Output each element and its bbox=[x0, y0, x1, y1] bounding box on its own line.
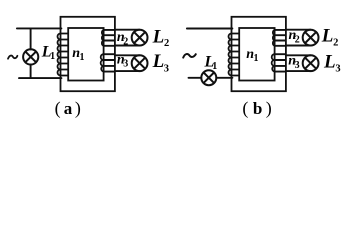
svg-text:3: 3 bbox=[335, 63, 340, 74]
svg-text:L: L bbox=[152, 51, 165, 72]
wire top (b) bbox=[187, 28, 233, 30]
svg-text:L: L bbox=[152, 27, 165, 48]
lamp L1 (a) bbox=[23, 49, 38, 64]
winding n2 ticks (b) bbox=[275, 30, 286, 46]
lamp L3 (a) bbox=[132, 55, 148, 71]
wire n3 to L3 bottom (b) bbox=[286, 70, 311, 72]
wire n2 to L2 top (a) bbox=[115, 29, 140, 31]
winding n3 ticks (b) bbox=[275, 54, 286, 71]
svg-text:1: 1 bbox=[254, 53, 259, 64]
wire lamp to core (b) bbox=[216, 77, 232, 79]
wire n3 to L3 top (a) bbox=[115, 54, 140, 56]
wire top (a) bbox=[17, 27, 62, 29]
core outer rect (a) bbox=[61, 17, 115, 91]
svg-text:3: 3 bbox=[123, 59, 128, 70]
wire n3 to L3 bottom (a) bbox=[115, 70, 140, 72]
wire lamp stub top (a) bbox=[30, 28, 32, 49]
lamp L2 (b) bbox=[303, 30, 319, 46]
core inner rect (a) bbox=[68, 28, 103, 81]
core outer rect (b) bbox=[232, 17, 286, 91]
wire bottom (a) bbox=[19, 77, 61, 79]
source ~ (a) bbox=[8, 56, 17, 59]
svg-text:2: 2 bbox=[123, 36, 128, 47]
winding n3 coil (b) bbox=[272, 54, 275, 71]
svg-text:2: 2 bbox=[295, 35, 300, 46]
winding n1 coil (b) bbox=[229, 34, 232, 76]
svg-text:1: 1 bbox=[50, 51, 55, 62]
winding n1 ticks (b) bbox=[232, 34, 240, 76]
winding n1 ticks (a) bbox=[61, 34, 69, 76]
svg-text:): ) bbox=[266, 98, 272, 119]
lamp L1 (b) bbox=[201, 70, 216, 85]
svg-text:L: L bbox=[323, 51, 336, 72]
core inner rect (b) bbox=[239, 28, 274, 81]
svg-text:1: 1 bbox=[80, 52, 85, 63]
svg-text:1: 1 bbox=[212, 61, 217, 72]
wire n2 to L2 bottom (b) bbox=[286, 45, 311, 47]
svg-text:3: 3 bbox=[164, 63, 169, 74]
svg-text:3: 3 bbox=[295, 60, 300, 71]
winding n1 coil (a) bbox=[58, 34, 61, 76]
transformer T (b) bbox=[229, 17, 286, 91]
winding n2 ticks (a) bbox=[104, 30, 115, 46]
svg-text:2: 2 bbox=[333, 37, 338, 48]
transformer T (a) bbox=[58, 17, 115, 91]
source ~ (b) bbox=[183, 54, 196, 58]
svg-text:(: ( bbox=[242, 98, 248, 119]
svg-text:): ) bbox=[75, 98, 81, 119]
svg-text:b: b bbox=[253, 99, 262, 118]
lamp L2 (a) bbox=[132, 30, 148, 46]
winding n3 coil (a) bbox=[101, 54, 104, 71]
wire n3 to L3 top (b) bbox=[286, 54, 311, 56]
wire lamp stub bottom (a) bbox=[30, 65, 32, 79]
wire n2 to L2 bottom (a) bbox=[115, 45, 140, 47]
wire bottom-left to lamp (b) bbox=[189, 77, 202, 79]
svg-text:a: a bbox=[64, 99, 73, 118]
lamp L3 (b) bbox=[303, 55, 319, 71]
svg-text:2: 2 bbox=[164, 38, 169, 49]
wire n2 to L2 top (b) bbox=[286, 29, 311, 31]
svg-text:(: ( bbox=[55, 98, 61, 119]
winding n2 coil (b) bbox=[273, 30, 275, 46]
svg-text:L: L bbox=[321, 25, 334, 46]
winding n2 coil (a) bbox=[102, 30, 104, 46]
winding n3 ticks (a) bbox=[104, 54, 115, 71]
